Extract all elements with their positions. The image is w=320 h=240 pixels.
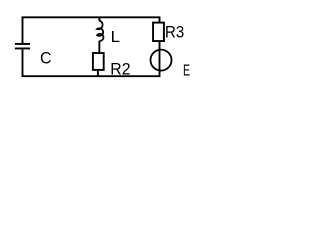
resistor R3 box — [153, 23, 164, 41]
svg-text:E: E — [183, 62, 190, 80]
wire R3 down through source to bottom corner — [159, 41, 161, 71]
capacitor C bottom plate — [15, 47, 30, 49]
svg-text:C: C — [40, 49, 52, 67]
svg-text:L: L — [111, 28, 120, 45]
svg-text:R3: R3 — [165, 23, 184, 42]
wire top rail with left and right corners — [23, 17, 160, 43]
capacitor C top plate — [15, 43, 30, 45]
inductor L coil — [97, 21, 103, 41]
resistor R2 box — [93, 53, 104, 70]
wire coil to R2 — [98, 41, 100, 53]
svg-text:R2: R2 — [110, 60, 130, 79]
wire bottom rail with left and right corners — [23, 49, 160, 76]
wire middle branch feed from top rail — [98, 17, 100, 21]
wire R2 to bottom rail — [97, 70, 99, 76]
EMF source E circle — [151, 50, 172, 71]
